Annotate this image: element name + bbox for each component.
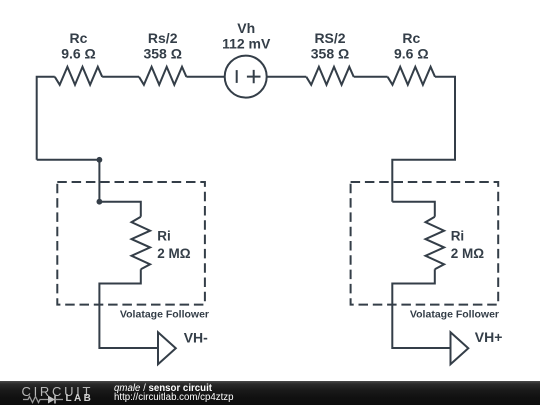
wire	[392, 202, 435, 217]
CircuitLab logo: LAB	[66, 394, 94, 404]
voltage follower box (left, dashed)	[57, 182, 205, 305]
svg-text:VH+: VH+	[475, 329, 503, 345]
wire	[392, 269, 450, 348]
svg-text:VH-: VH-	[184, 330, 208, 346]
resistor Ri (right, 2 Mohm)	[426, 217, 445, 269]
svg-text:Ri: Ri	[157, 229, 171, 244]
svg-text:9.6 Ω: 9.6 Ω	[394, 46, 429, 62]
svg-text:Vh: Vh	[237, 20, 255, 36]
resistor Rs/2 (left, 358 ohm)	[139, 67, 186, 85]
svg-text:Volatage Follower: Volatage Follower	[410, 309, 499, 321]
footer bar	[0, 381, 540, 405]
svg-text:Volatage Follower: Volatage Follower	[120, 309, 209, 321]
resistor Rc (right, 9.6 ohm)	[388, 67, 435, 85]
credit line: qmale / sensor circuit	[114, 384, 212, 394]
wire	[186, 76, 224, 78]
svg-text:112 mV: 112 mV	[222, 36, 271, 52]
svg-text:2 MΩ: 2 MΩ	[157, 246, 191, 261]
svg-text:Rc: Rc	[402, 30, 420, 46]
wire	[37, 77, 55, 160]
svg-text:358 Ω: 358 Ω	[311, 46, 349, 62]
svg-text:RS/2: RS/2	[314, 30, 345, 46]
svg-text:9.6 Ω: 9.6 Ω	[61, 46, 96, 62]
output flag VH+	[451, 332, 469, 364]
wire	[102, 76, 139, 78]
svg-text:Rc: Rc	[70, 30, 88, 46]
wire	[392, 77, 455, 202]
logo diode	[48, 395, 55, 403]
wire	[267, 76, 307, 78]
svg-text:2 MΩ: 2 MΩ	[451, 246, 485, 261]
node junction dot	[97, 199, 103, 205]
wire	[37, 159, 100, 161]
wire	[99, 202, 140, 217]
wire	[98, 160, 100, 202]
logo resistor squiggle	[23, 396, 48, 402]
svg-text:358 Ω: 358 Ω	[143, 46, 181, 62]
voltage follower box (right, dashed)	[351, 182, 499, 305]
node junction dot	[97, 157, 103, 163]
CircuitLab logo: resistor+diode squiggle	[22, 394, 94, 406]
url line	[114, 393, 234, 403]
svg-text:Rs/2: Rs/2	[148, 30, 178, 46]
wire	[354, 76, 388, 78]
wire	[99, 269, 158, 348]
svg-text:Ri: Ri	[451, 229, 465, 244]
CircuitLab logo: CIRCUIT	[22, 385, 94, 398]
resistor RS/2 (right, 358 ohm)	[306, 67, 353, 85]
voltage source Vh 112 mV	[225, 56, 267, 98]
resistor Rc (left, 9.6 ohm)	[55, 67, 102, 85]
resistor Ri (left, 2 Mohm)	[132, 217, 151, 269]
output flag VH-	[158, 332, 176, 364]
